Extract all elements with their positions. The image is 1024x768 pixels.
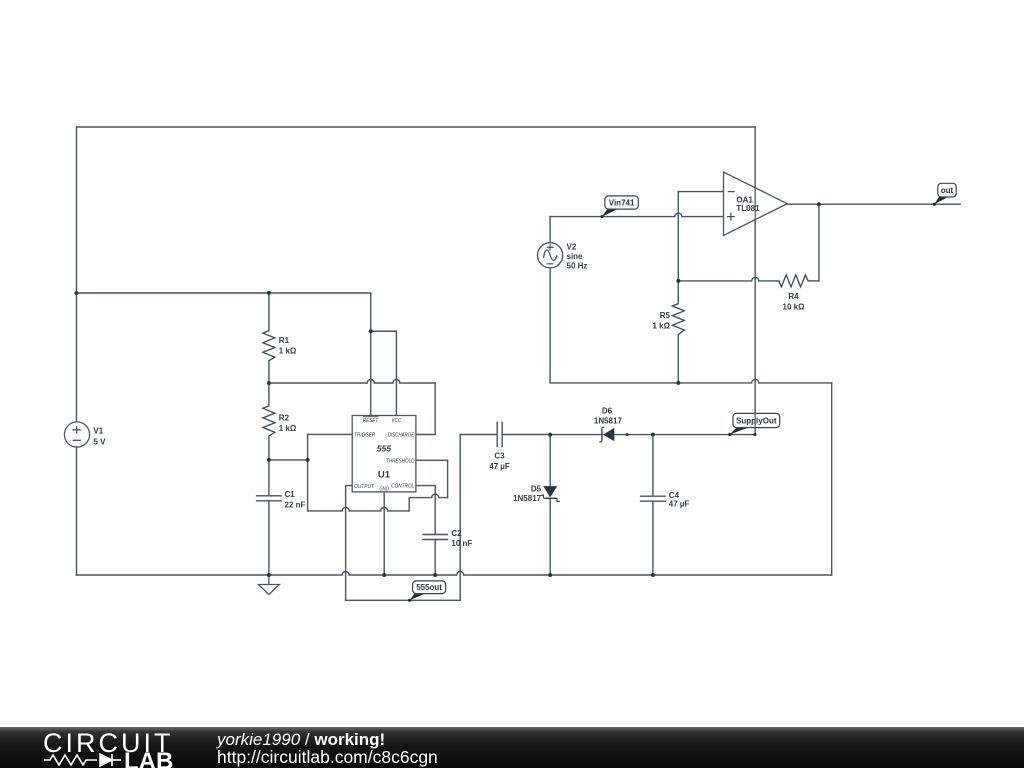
svg-text:http://circuitlab.com/c8c6cgn: http://circuitlab.com/c8c6cgn: [217, 747, 438, 767]
ground: [258, 575, 279, 595]
node D6 anode terminal: [626, 433, 629, 436]
svg-text:V1: V1: [93, 427, 103, 436]
wire discharge rail y383 with hops: [269, 380, 435, 384]
svg-text:1 kΩ: 1 kΩ: [279, 347, 297, 356]
wire node to D6 cathode: [550, 434, 602, 436]
svg-text:CONTROL: CONTROL: [391, 484, 414, 490]
capacitor C2: [422, 535, 448, 540]
svg-text:OUTPUT: OUTPUT: [354, 484, 374, 490]
svg-text:50 Hz: 50 Hz: [567, 262, 588, 271]
footer bar: [0, 727, 1024, 768]
svg-text:10 kΩ: 10 kΩ: [783, 303, 806, 312]
wire right edge column: [831, 383, 833, 575]
net flag 555out: [408, 581, 446, 602]
wire RESET column: [370, 331, 372, 415]
wire V2 bottom lead: [549, 268, 551, 383]
resistor R2: [263, 406, 275, 436]
svg-text:47 µF: 47 µF: [489, 462, 510, 471]
svg-text:GND: GND: [380, 486, 390, 492]
wire noninverting input with hop: [550, 213, 723, 216]
wire R5 bottom lead: [677, 335, 679, 383]
wire R4 up to output: [818, 204, 820, 281]
svg-text:sine: sine: [567, 252, 584, 261]
wire trigger node horizontal: [269, 459, 308, 461]
net flag Vin741: [600, 196, 638, 218]
wire VCC column: [395, 331, 397, 415]
wire threshold up to trigger node: [307, 460, 309, 511]
svg-text:1 kΩ: 1 kΩ: [652, 322, 670, 331]
diode D6 1N5817: [599, 427, 614, 442]
svg-text:D5: D5: [531, 485, 542, 494]
wire V2/R5 rail y382.9 with hop: [550, 379, 832, 383]
resistor R5: [672, 304, 684, 335]
wire C1 top lead: [268, 460, 270, 496]
svg-text:D6: D6: [602, 407, 613, 416]
svg-text:555: 555: [377, 443, 391, 453]
wire output pin jog: [346, 486, 352, 601]
wire opamp supply column: [754, 127, 756, 435]
source V2 sine 50Hz: [538, 243, 563, 268]
wire opamp supply column overdraw: [754, 187, 756, 221]
wire trigger up and into pin: [308, 434, 352, 460]
resistor R4: [779, 275, 808, 287]
svg-text:C3: C3: [494, 452, 505, 461]
logo resistor-diode glyph: [44, 754, 121, 766]
capacitor C1: [256, 496, 282, 501]
wire C4 top lead: [652, 435, 654, 496]
svg-text:C2: C2: [451, 529, 462, 538]
wire jog to VCC column: [371, 330, 397, 332]
svg-text:555out: 555out: [416, 583, 442, 592]
wire feedback column: [677, 192, 679, 281]
svg-text:10 nF: 10 nF: [451, 539, 472, 548]
svg-text:THRESHOLD: THRESHOLD: [386, 458, 415, 464]
wire C1 bottom lead: [268, 501, 270, 575]
svg-text:TL081: TL081: [736, 204, 760, 213]
svg-text:47 µF: 47 µF: [669, 500, 690, 509]
wire V2 top lead: [549, 217, 551, 243]
IC U1 555: [352, 416, 416, 493]
wire R1 bottom lead: [268, 361, 270, 383]
wire R2 bottom lead: [268, 436, 270, 460]
wire D6 anode to supply end: [614, 434, 755, 436]
svg-text:VCC: VCC: [392, 418, 402, 424]
svg-text:1N5817: 1N5817: [594, 416, 623, 425]
svg-text:C1: C1: [285, 490, 296, 499]
svg-text:U1: U1: [378, 470, 391, 481]
svg-text:Vin741: Vin741: [609, 198, 635, 207]
wire threshold path left with hop: [409, 494, 447, 511]
svg-text:R5: R5: [660, 311, 671, 320]
svg-text:1 kΩ: 1 kΩ: [279, 424, 297, 433]
wire mid rail y293: [77, 292, 371, 294]
wire R5 top lead: [677, 281, 679, 304]
wire bottom rail with hops: [77, 572, 832, 576]
svg-text:RESET: RESET: [363, 418, 379, 424]
svg-text:DISCHARGE: DISCHARGE: [388, 433, 415, 439]
svg-text:SupplyOut: SupplyOut: [736, 417, 777, 426]
wire C3 right to node: [502, 434, 550, 436]
wire R4 row left lead: [678, 277, 779, 281]
wire D5 bottom lead: [549, 498, 551, 575]
svg-text:R4: R4: [788, 292, 799, 301]
svg-text:1N5817: 1N5817: [513, 494, 542, 503]
wire inverting input: [678, 191, 723, 193]
wire R2 top lead: [268, 383, 270, 406]
svg-text:V2: V2: [567, 243, 577, 252]
wire D5 top lead: [549, 435, 551, 487]
svg-text:5 V: 5 V: [93, 438, 106, 447]
capacitor C3: [497, 422, 502, 448]
wire supplyout row: [460, 434, 497, 436]
wire left column V1 bottom: [76, 447, 78, 575]
wire discharge column: [416, 383, 435, 435]
svg-text:LAB: LAB: [124, 748, 173, 768]
op-amp OA1 TL081: [724, 172, 788, 235]
wire threshold path bottom with hops: [308, 507, 410, 510]
wire R4 right lead: [808, 280, 819, 282]
wire C4 bottom lead: [652, 501, 654, 575]
wire threshold path right: [416, 460, 448, 497]
svg-text:R2: R2: [279, 414, 290, 423]
wire C2 bottom lead: [434, 539, 436, 575]
source V1 5V: [64, 422, 89, 447]
wire R1 top lead: [268, 293, 270, 331]
wire opamp output: [787, 203, 960, 205]
net flag SupplyOut: [728, 413, 780, 436]
svg-text:R1: R1: [279, 336, 290, 345]
wire 555out loop up to C3: [459, 435, 461, 601]
svg-text:22 nF: 22 nF: [285, 501, 306, 510]
capacitor C4: [640, 496, 666, 501]
net flag out: [933, 183, 957, 205]
svg-text:out: out: [941, 186, 954, 195]
diode D5 1N5817: [541, 486, 560, 501]
wire corner x370.75 down: [370, 293, 372, 331]
wire left column V1 top: [76, 127, 78, 422]
svg-text:TRIGGER: TRIGGER: [354, 433, 375, 439]
resistor R1: [263, 331, 275, 361]
wire 555out loop bottom: [346, 599, 461, 601]
wire GND pin column: [383, 492, 385, 575]
wire control pin jog: [416, 486, 435, 535]
wire top rail V1+ to opamp column: [77, 126, 756, 128]
node SupplyOut end: [753, 433, 756, 436]
